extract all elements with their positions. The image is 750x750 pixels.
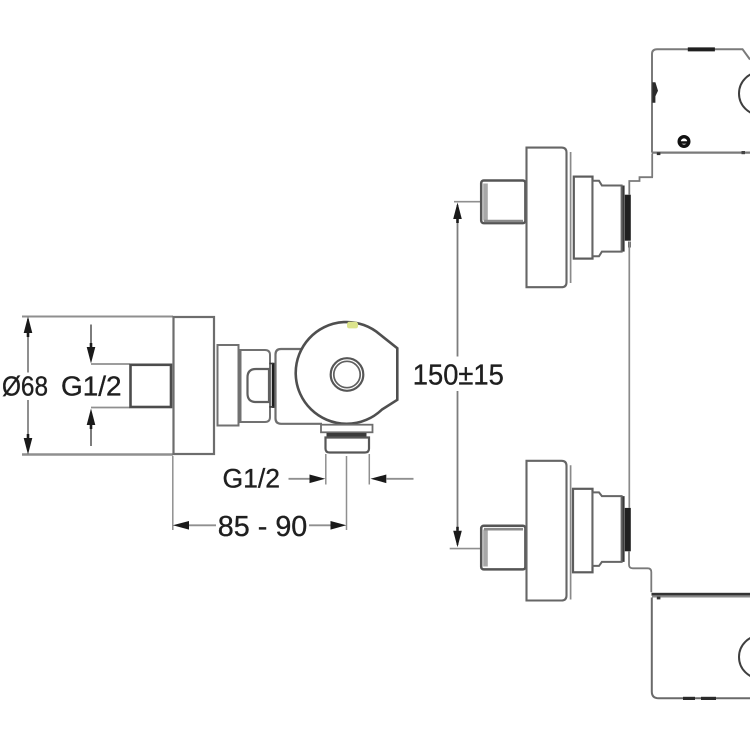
svg-text:G1/2: G1/2 [223,464,281,494]
outlet flat bar [321,425,373,433]
top box bottom edge [652,152,750,154]
arrowhead 150±15 up [453,203,462,224]
svg-text:85 - 90: 85 - 90 [218,511,307,543]
top box dark segment on top edge [688,47,715,51]
bottom inlet escutcheon [527,461,567,601]
body step to inlet boss (top) [629,177,653,194]
bottom inlet escutcheon double edge [570,465,572,599]
check valve cartridge [248,369,270,402]
outlet collar dark band [327,433,367,437]
outlet nipple G1/2 [326,438,370,453]
wall flange [174,317,215,454]
top inlet escutcheon [527,148,567,288]
gasket bottom inlet [625,508,631,551]
dimension line Ø68 [27,319,29,451]
extension line bottom inlet center [450,548,481,550]
arrowhead Ø68 down [24,434,33,455]
centerline outlet [346,456,348,530]
washer edge bottom inlet [622,496,624,562]
clip detail on top box left edge [652,82,658,103]
dark ticks on bottom box bottom edge [683,697,695,700]
dimension G1/2 outlet left arrow [289,475,326,484]
extension line top (Ø68) [22,316,173,318]
bottom inlet nut [481,526,525,570]
bottom box circle (clipped) [739,636,750,679]
extension line outlet left [325,454,327,485]
knob (circle with right flat) [296,322,398,424]
valve body housing [276,349,323,424]
knob center button inner [334,361,360,387]
top box outline [652,49,750,152]
tick below top gasket [628,242,631,248]
label G1/2 outlet [223,464,281,494]
top box circle (clipped) [739,72,750,115]
label 150±15 [413,359,504,391]
body edge below top box [651,154,653,178]
svg-text:G1/2: G1/2 [61,370,122,401]
arrowhead G1/2 down (points to pipe top) [87,343,96,364]
top inlet union taper [593,181,622,257]
arrowhead G1/2 up (points to pipe bottom) [87,409,96,430]
check valve housing [241,350,271,422]
tick below bottom box top edge [657,597,661,600]
screw mark e [679,137,690,147]
junction seam caps [270,364,274,407]
extension line top inlet center [454,201,481,203]
junction dark seam [272,363,275,408]
extension line bottom (Ø68) [22,453,173,455]
dimension G1/2 outlet right arrow [371,475,414,484]
top inlet union body [574,177,593,259]
inlet pipe square [131,365,172,407]
extension line pipe top [91,363,130,365]
yellow index mark on knob [347,322,358,329]
bottom box top dark edge [652,593,750,596]
bottom box outline [652,598,750,699]
extension line pipe bottom [91,407,130,409]
tick on top box bottom edge right [742,151,746,154]
svg-text:Ø68: Ø68 [2,370,48,401]
label 85 - 90 [218,511,307,543]
body step below bottom gasket [629,551,651,592]
bottom box top thin edge [652,596,750,598]
bottom inlet union body [573,489,593,573]
svg-text:150±15: 150±15 [413,359,504,391]
sleeve behind flange [218,345,239,426]
dimension line 150±15 [457,205,459,545]
extension line outlet right [368,454,370,485]
label Ø68 G1/2 [2,370,122,401]
extension line 85-90 left [172,456,174,530]
body edge between inlets [628,242,630,508]
dimension line G1/2 inner [90,325,92,447]
top inlet escutcheon double edge [570,152,572,283]
dimension 85-90 [173,521,346,530]
top inlet nut [481,181,525,224]
tick on top box bottom edge [657,152,661,155]
arrowhead Ø68 up [24,317,33,338]
washer edge top inlet [622,186,624,252]
arrowhead 150±15 down [453,527,462,548]
bottom inlet union taper [593,492,622,566]
knob center button outer [331,358,364,391]
gasket top inlet [625,195,631,241]
